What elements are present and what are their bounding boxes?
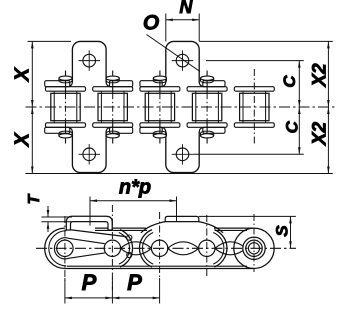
link3 left cap at pin3 — [139, 230, 152, 267]
inner contour top edge segments — [95, 229, 147, 231]
tab 1 top bend right — [106, 82, 112, 87]
clip curled ends at pin2 — [127, 235, 132, 240]
svg-text:P: P — [127, 270, 142, 295]
pin 3 — [159, 71, 161, 94]
attachment tab 2 top — [166, 41, 199, 86]
pin 2 — [112, 71, 114, 94]
S extension line — [199, 215, 296, 217]
pin head washer pin3 top — [153, 76, 166, 80]
tab 1 bot bend right — [106, 127, 112, 132]
pin head washer pin1 bottom — [59, 134, 72, 138]
outer plate edge segment 3 bottom — [140, 127, 162, 133]
inner contour bottom edge — [67, 265, 247, 267]
attachment bent plate 2 (side view, low profile with shoulders) — [165, 216, 199, 221]
bottom view chain centerline — [36, 247, 296, 249]
svg-text:X: X — [11, 131, 33, 147]
pin5 pin circle — [248, 243, 259, 254]
roller pin2 (plan) — [98, 93, 127, 120]
tab 1 top bend left — [67, 82, 73, 87]
top view centerline — [26, 106, 336, 108]
pin 4 — [206, 71, 208, 94]
outer plate edge segment 1 bottom — [45, 127, 70, 133]
pin 1 — [65, 71, 67, 94]
n*p dimension line — [90, 200, 177, 202]
shared bottom extension line — [26, 173, 333, 175]
X2 dimension line — [327, 41, 329, 173]
pin head washer pin1 top — [59, 76, 72, 80]
svg-text:X2: X2 — [310, 63, 331, 88]
bolt hole tab1 top — [83, 54, 96, 67]
hole crosshair tab2 top — [172, 60, 193, 62]
pin circle 4 — [199, 240, 215, 256]
bushing lines pin2 — [100, 91, 102, 123]
attachment tab 2 bot — [166, 128, 199, 173]
roller pin3 (plan) — [145, 93, 174, 120]
bushing sleeve strip pin2 top — [93, 87, 133, 92]
attachment 2 right shoulder — [199, 222, 223, 233]
bushing sleeve strip pin3 top — [140, 87, 180, 92]
pin head washer pin2 bottom — [106, 134, 119, 138]
bushing sleeve strip pin2 bottom — [93, 123, 133, 128]
pin head washer pin4 top — [201, 76, 214, 80]
O leader line — [147, 35, 201, 72]
tab 1 bot bend left — [67, 127, 73, 132]
pin circle 3 — [151, 240, 167, 256]
bushing lines pin5 — [242, 91, 244, 123]
pin circle 2 — [104, 240, 120, 256]
svg-text:X: X — [11, 66, 33, 82]
attachment tab 1 bot — [72, 128, 106, 173]
outer plate top edge segments — [95, 227, 146, 229]
bushing sleeve strip pin3 bottom — [140, 123, 180, 128]
S dimension line — [290, 216, 292, 248]
bushing lines pin3 — [148, 91, 150, 123]
pin 5 centerline — [253, 69, 255, 145]
bolt hole tab1 bot — [83, 148, 96, 161]
C extension line upper — [206, 60, 304, 62]
outer plate bottom edge — [65, 268, 254, 270]
link 4 boss lens — [215, 242, 246, 255]
roller pin1 (plan) — [51, 93, 80, 120]
bushing sleeve strip pin1 top — [46, 87, 86, 92]
link1 clip tapered top edge — [66, 229, 126, 236]
N dimension line — [166, 19, 199, 21]
plate cap pin5 (chain end, round) — [234, 228, 274, 268]
svg-text:X2: X2 — [310, 121, 331, 146]
X dimension extension line top-left — [28, 40, 72, 42]
svg-text:C: C — [283, 120, 302, 133]
attachment 2 left shoulder — [141, 222, 165, 233]
svg-text:S: S — [273, 225, 292, 237]
link1 spring clip (teardrop) — [54, 238, 68, 259]
bushing sleeve strip pin4 top — [187, 87, 227, 92]
svg-text:C: C — [280, 75, 299, 88]
pin head washer pin3 bottom — [153, 134, 166, 138]
link1 right cap at pin2 — [120, 230, 133, 267]
tab 2 bot bend left — [160, 127, 166, 132]
tab 2 top bend left — [160, 82, 166, 87]
outer plate edge segment 2 bottom — [110, 127, 133, 133]
roller pin4 (plan) — [192, 93, 221, 120]
attachment bent plate 1 (side view) — [66, 216, 112, 230]
N extension lines — [165, 14, 167, 42]
bushing sleeve strip pin1 bottom — [46, 123, 86, 128]
outer plate edge segment 4 top — [203, 81, 225, 87]
svg-text:P: P — [82, 270, 97, 295]
outer plate edge segment 2 top — [110, 81, 133, 87]
bolt hole tab2 bot — [176, 148, 189, 161]
pin 2 vertical centerline — [111, 205, 113, 290]
plate cap pin1 (chain end, round) — [45, 228, 65, 268]
tab 2 top bend right — [199, 82, 205, 87]
n*p extension lines — [89, 197, 91, 226]
bushing lines pin4 — [195, 91, 197, 123]
bushing sleeve strip pin4 bottom — [187, 123, 227, 128]
T dimension line with outside arrows — [47, 206, 49, 217]
X dimension line — [31, 41, 33, 173]
outer plate edge segment 3 top — [140, 81, 162, 87]
pin 3 vertical centerline — [159, 212, 161, 279]
svg-text:N: N — [179, 0, 193, 17]
outer plate edge segment 1 top — [45, 81, 70, 87]
P extension lines — [64, 278, 66, 304]
C dimension line — [298, 61, 300, 155]
bushing lines pin1 — [53, 91, 55, 123]
pin 1 vertical centerline — [64, 216, 66, 283]
svg-text:T: T — [26, 193, 43, 204]
roller pin5 — [243, 237, 265, 259]
pin circle 5 — [246, 240, 262, 256]
bolt hole tab2 top — [176, 54, 189, 67]
hole crosshair tab1 top — [79, 60, 101, 62]
svg-text:O: O — [143, 12, 159, 35]
pin head washer pin4 bottom — [201, 134, 214, 138]
bushing sleeve strip pin5 top — [234, 87, 274, 92]
attachment tab 1 top — [72, 41, 106, 86]
hole crosshair tab1 bot — [79, 153, 101, 155]
link3 right cap at pin4 — [214, 230, 227, 267]
link 2 boss lens — [120, 242, 151, 255]
svg-text:n*p: n*p — [119, 177, 151, 199]
bushing sleeve strip pin5 bottom — [234, 123, 274, 128]
roller pin5 (plan) — [240, 93, 269, 120]
pin 4 vertical centerline — [206, 215, 208, 278]
link 3 boss lens — [168, 242, 199, 255]
outer plate edge segment 4 bottom — [203, 127, 225, 133]
P dimension line — [65, 297, 160, 299]
T extension lines — [42, 216, 73, 218]
X2 extension line top — [199, 40, 332, 42]
tab 2 bot bend right — [199, 127, 205, 132]
pin circle 1 — [57, 240, 73, 256]
hole crosshair tab2 bot — [172, 153, 193, 155]
C extension line lower — [193, 153, 304, 155]
pin head washer pin2 top — [106, 76, 119, 80]
pin 5 vertical centerline — [253, 214, 255, 272]
